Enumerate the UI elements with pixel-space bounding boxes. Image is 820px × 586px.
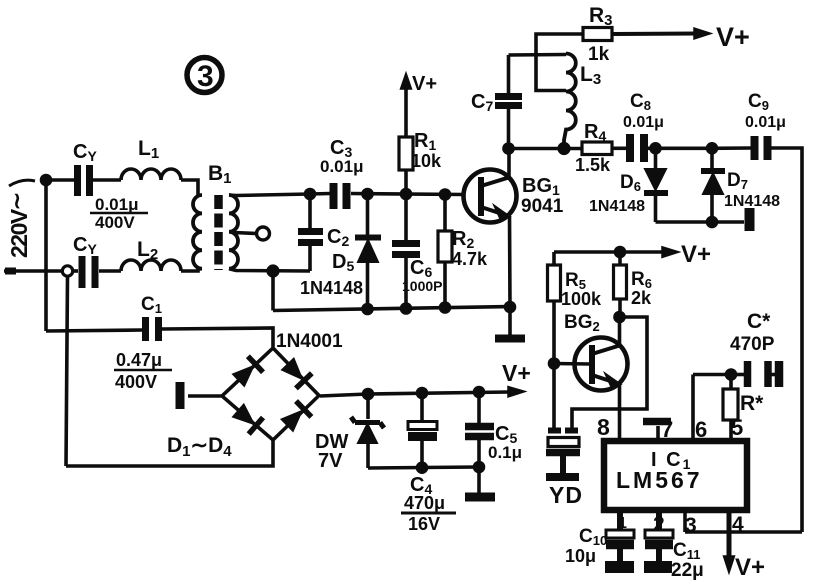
capacitor CY (bottom)	[82, 256, 95, 288]
node: 220V top junction	[42, 176, 51, 185]
power V+ arrow (top right)	[694, 28, 711, 39]
pin 7 lead	[656, 426, 660, 441]
svg-text:220V∼: 220V∼	[4, 193, 32, 258]
wire: R4 to C8	[612, 147, 626, 151]
svg-text:1000P: 1000P	[402, 278, 442, 294]
node: BG2 collector junction	[615, 313, 624, 322]
node: BG2 base junction	[550, 359, 559, 368]
svg-text:V+: V+	[716, 22, 750, 52]
svg-text:7V: 7V	[318, 450, 343, 472]
wire: rail to R4	[509, 147, 583, 151]
node: timing node (pin5/6, C*, R*)	[727, 370, 736, 379]
svg-text:V+: V+	[502, 360, 531, 386]
node: collector/C7/L3/R4 rail left	[504, 144, 513, 153]
wire: junction to C6	[404, 194, 408, 240]
ground (C*)	[775, 361, 784, 387]
wire: node B to C9	[712, 146, 751, 150]
svg-text:1: 1	[618, 515, 627, 532]
wire: C7 bottom lead	[507, 109, 511, 149]
wire: R5 top lead	[552, 252, 556, 265]
wire: ground stem below rail	[508, 307, 512, 335]
svg-text:400V: 400V	[95, 213, 135, 232]
transistor BG2	[575, 338, 628, 391]
wire: V+ to R1	[404, 89, 408, 137]
transformer B1 secondary winding	[229, 195, 238, 269]
wire: R3 to V+	[612, 32, 698, 37]
svg-text:8: 8	[597, 414, 610, 440]
wire: CY to L2	[99, 269, 121, 273]
wire: C11 ground stem	[656, 549, 662, 562]
inductor L3 (tapped coil)	[564, 54, 576, 149]
svg-text:0.01μ: 0.01μ	[745, 114, 786, 131]
capacitor C3	[334, 183, 347, 209]
capacitor C11 (electrolytic)	[645, 530, 673, 545]
svg-text:0.1μ: 0.1μ	[488, 443, 522, 462]
svg-text:3: 3	[685, 514, 697, 537]
svg-text:1N4148: 1N4148	[300, 278, 363, 298]
wire: R5 bottom to BG2 base and YD left terminal	[552, 301, 556, 428]
wire: feedback loop collector to YD	[572, 317, 647, 428]
svg-text:0.47μ: 0.47μ	[116, 350, 162, 370]
inductor L1	[121, 169, 181, 180]
power V+ arrow (above R1)	[401, 73, 412, 90]
svg-text:0.01μ: 0.01μ	[320, 157, 364, 176]
wire: DW top lead	[366, 394, 370, 419]
wire: C8 to node A	[648, 147, 656, 151]
svg-text:10μ: 10μ	[565, 546, 596, 566]
AC source lead-in curve (top)	[9, 180, 35, 186]
node: C5 on ground rail	[475, 463, 484, 472]
diode D4 (bottom-right arm)	[282, 401, 312, 431]
pin 2 lead	[656, 510, 662, 530]
wire: drop to ground rail	[271, 271, 275, 311]
diode D6	[644, 169, 668, 193]
wire: C4 top lead	[420, 393, 424, 421]
svg-text:D1∼D4: D1∼D4	[167, 434, 232, 460]
wire: secondary centre tap	[234, 233, 256, 234]
node: C4 on ground rail	[418, 463, 427, 472]
capacitor C4 (electrolytic)	[408, 422, 437, 437]
pin 8 lead (from BG2 emitter, drawn above)	[618, 439, 622, 441]
wire: bottom return rail to bridge bottom	[66, 440, 273, 466]
wire: V+ rail (tone stage)	[554, 250, 664, 254]
wire: junction to C3	[310, 192, 330, 196]
svg-text:LM567: LM567	[616, 467, 703, 493]
node: secondary bottom junction	[268, 266, 278, 276]
capacitor C8	[630, 134, 644, 162]
node: D7 bottom junction	[708, 218, 717, 227]
svg-text:16V: 16V	[408, 514, 440, 534]
svg-text:V+: V+	[681, 241, 711, 268]
pin 6 lead	[691, 375, 695, 442]
node: R1/C6 junction	[402, 190, 411, 199]
wire: CY to L1	[93, 178, 121, 182]
inductor L2	[121, 260, 181, 271]
resistor R5	[548, 265, 561, 301]
capacitor C6	[392, 244, 420, 255]
wire: C1 to bridge top	[162, 328, 273, 347]
node: R2 on ground rail	[441, 303, 450, 312]
wire: psu ground rail	[368, 467, 479, 468]
wire: oscillator ground rail	[273, 307, 512, 311]
figure number 3 (circled)	[187, 58, 222, 93]
node: R6 top junction	[616, 248, 625, 257]
wire: secondary top lead	[229, 194, 310, 196]
wire: R2 top lead	[443, 195, 447, 232]
wire: 220V top line to CY	[46, 178, 74, 182]
wire: 220V left drop to C1 row	[44, 180, 48, 331]
node: DW junction	[364, 390, 373, 399]
wire: ground stem	[477, 467, 481, 493]
wire: BG1 collector up	[507, 149, 511, 180]
wire: D6 top lead	[654, 148, 658, 169]
svg-text:4.7k: 4.7k	[452, 249, 488, 269]
wire: C6 to ground rail	[404, 258, 408, 309]
svg-text:2k: 2k	[631, 288, 652, 308]
svg-text:10k: 10k	[411, 151, 442, 171]
transformer B1 core	[214, 195, 223, 270]
svg-text:V+: V+	[412, 73, 437, 95]
svg-text:1k: 1k	[588, 44, 610, 65]
resistor R2	[438, 231, 452, 262]
resistor R*	[723, 389, 738, 420]
op-amp/IC U1: LM567 body	[604, 441, 747, 510]
ground (C10)	[605, 561, 634, 573]
svg-text:470μ: 470μ	[404, 493, 445, 513]
svg-text:4: 4	[732, 513, 744, 536]
diode D7	[701, 171, 725, 194]
wire: C2 top lead	[308, 194, 312, 228]
node: C6 on ground rail	[402, 304, 411, 313]
wire: DW bottom lead	[366, 443, 370, 468]
wire: R2 bottom lead	[443, 262, 447, 308]
wire: C5 top lead	[477, 392, 481, 423]
node: C4 top junction	[418, 389, 427, 398]
wire: BG1 emitter down to ground rail	[508, 216, 512, 307]
svg-text:22μ: 22μ	[671, 560, 704, 581]
node A: C8/D6 junction	[651, 144, 660, 153]
wire: D5 top lead	[366, 194, 370, 237]
wire: C3 to BG1 base (with taps)	[351, 194, 464, 195]
transformer B1 primary winding	[193, 195, 202, 269]
svg-text:400V: 400V	[115, 372, 157, 392]
node: R2 top junction	[441, 190, 450, 199]
pin 4 lead	[727, 510, 732, 556]
node: open circle junction on 220V bottom line	[62, 266, 72, 276]
ground (detector)	[745, 208, 755, 231]
wire: C4 bottom lead	[420, 441, 424, 468]
power V+ arrow (supply rail)	[508, 387, 525, 398]
svg-text:5: 5	[731, 415, 743, 440]
wire: R3 left lead and tap of L3	[536, 34, 583, 91]
capacitor C7	[495, 97, 522, 106]
svg-text:6: 6	[695, 417, 707, 442]
capacitor C5	[465, 427, 494, 437]
wire: pin 3 to right edge column	[685, 530, 802, 534]
wire: R6 top lead	[618, 252, 622, 265]
diode D2 (top-right arm)	[282, 359, 312, 389]
wire: pin 6 to timing node	[693, 373, 731, 377]
wire: C5 bottom lead	[477, 440, 481, 467]
wire: node A to node B	[656, 147, 713, 151]
resistor R6	[614, 265, 627, 299]
wire: secondary bottom lead	[229, 269, 310, 271]
wire: bridge right vertex to V+ rail	[320, 392, 509, 396]
ground (psu)	[465, 493, 495, 502]
wire: 220V bottom line left	[4, 269, 62, 273]
capacitor C10 (electrolytic)	[606, 530, 634, 545]
zener diode DW	[351, 417, 384, 443]
power V+ arrow (tone stage)	[662, 247, 679, 258]
wire: C* to ground	[772, 373, 777, 377]
svg-text:C*: C*	[747, 310, 771, 333]
pin 5 lead through R*	[729, 375, 733, 442]
wire: C7 to L3 top	[509, 53, 567, 57]
capacitor C9	[755, 136, 768, 160]
wire: C9 to right edge column down to pin3 row	[771, 148, 802, 532]
node B: D7/C9 junction	[708, 144, 717, 153]
wire: D7 top lead	[710, 148, 714, 171]
wire: collector lead up	[618, 317, 622, 347]
ground (pin 7)	[643, 418, 671, 426]
svg-text:V+: V+	[735, 554, 765, 581]
wire: open circle to CY bottom	[73, 269, 78, 273]
diode D5	[355, 238, 381, 263]
wire: emitter lead down to IC pin 8	[618, 384, 622, 439]
capacitor C*	[748, 361, 769, 387]
diode D3 (bottom-left arm)	[233, 405, 263, 434]
wire: C7 top lead	[507, 55, 511, 93]
node: centre tap open terminal	[257, 227, 270, 240]
pin 1 lead	[617, 510, 623, 530]
svg-text:7: 7	[661, 417, 673, 442]
svg-text:100k: 100k	[561, 289, 602, 309]
capacitor C1	[146, 317, 159, 341]
wire: C2 bottom lead	[308, 246, 312, 271]
AC source lead tick (bottom)	[5, 268, 16, 275]
wire: D6 bottom lead	[654, 193, 658, 222]
capacitor C2	[298, 232, 323, 243]
node: C2 top junction	[306, 190, 315, 199]
resistor R1	[399, 137, 413, 170]
wire: C10 ground stem	[617, 549, 623, 562]
transistor BG1	[464, 170, 517, 223]
wire: base wire into BG2	[554, 362, 590, 366]
diode D1 (top-left arm)	[233, 356, 263, 386]
node: emitter on ground rail	[506, 303, 515, 312]
svg-text:470P: 470P	[730, 334, 775, 355]
ground (bridge negative)	[176, 382, 185, 409]
svg-text:1N4148: 1N4148	[724, 193, 780, 210]
wire: primary bottom lead	[181, 269, 202, 271]
ground (BG1 emitter)	[495, 335, 525, 343]
wire: R6 bottom lead	[618, 299, 622, 317]
node: D5 top junction	[363, 190, 372, 199]
svg-text:1N4148: 1N4148	[589, 198, 645, 215]
wire: D7 bottom lead	[710, 194, 714, 222]
svg-text:YD: YD	[549, 482, 583, 508]
svg-text:0.01μ: 0.01μ	[95, 195, 139, 214]
node: D5 on ground rail	[363, 305, 372, 314]
bridge rectifier D1~D4 frame	[222, 348, 319, 440]
svg-text:3: 3	[197, 60, 214, 93]
capacitor CY (top)	[78, 165, 90, 196]
wire: D5 bottom lead	[366, 262, 370, 310]
svg-text:2: 2	[653, 513, 665, 536]
wire: node to C*	[731, 373, 744, 377]
svg-text:0.01μ: 0.01μ	[623, 114, 664, 131]
wire: bridge left vertex to ground	[188, 394, 221, 398]
wire: C1 row left	[46, 330, 142, 331]
wire: L1 to transformer primary	[181, 180, 198, 195]
wire: R1 to base wire	[404, 170, 408, 194]
power V+ arrow (pin 4, pointing down)	[724, 556, 735, 573]
ground (C11)	[644, 561, 672, 573]
svg-text:9041: 9041	[521, 196, 564, 217]
node: L3 bottom on rail	[559, 144, 569, 154]
svg-text:1.5k: 1.5k	[575, 155, 611, 175]
svg-text:R*: R*	[740, 392, 764, 415]
svg-text:1N4001: 1N4001	[276, 331, 343, 352]
pin 3 lead	[683, 510, 687, 532]
transducer YD	[546, 431, 580, 478]
resistor R4	[582, 142, 612, 155]
wire: detector ground wire	[656, 220, 745, 224]
wire: open circle drop to bottom return rail	[66, 276, 68, 466]
node: C5 top junction	[475, 388, 484, 397]
resistor R3	[583, 28, 612, 41]
